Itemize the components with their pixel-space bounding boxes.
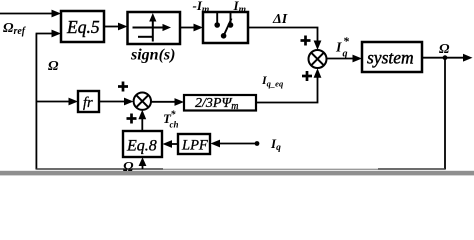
svg-text:Ω: Ω <box>439 42 450 57</box>
wire: switch output with corner down to summing junction 1 <box>248 28 321 51</box>
svg-text:ch: ch <box>170 120 179 130</box>
junction dot on output <box>443 55 448 60</box>
block limiter switch <box>203 12 248 43</box>
block Eq.5 <box>61 11 104 42</box>
svg-text:LPF: LPF <box>181 138 208 154</box>
label + (bottom input of summing junction 2) <box>127 114 137 124</box>
wire: lower input into Eq.5 <box>36 30 61 38</box>
wire: omega_ref input line <box>0 10 61 18</box>
label Iq (LPF input) <box>270 136 281 153</box>
svg-text:I: I <box>335 41 342 56</box>
svg-text:Iq_eq: Iq_eq <box>261 73 284 89</box>
wire: 2/3PPsi_m output corner up to summing junction 1 <box>256 68 321 102</box>
svg-text:fr: fr <box>83 95 93 111</box>
label Omega (Eq.8 bottom input) <box>123 160 134 175</box>
wire: fr to summing junction 2 <box>99 98 134 106</box>
wire: LPF to Eq.8 <box>163 140 179 148</box>
wire: branch to fr <box>36 98 78 106</box>
label Omega (feedback into Eq.5 branch) <box>48 59 59 74</box>
label + (bottom input of summing junction 1) <box>302 71 312 81</box>
block Eq.8 <box>123 131 162 157</box>
wire: summing junction 2 to 2/3PPsi_m <box>151 98 184 106</box>
wire: Omega input up into Eq.8 bottom <box>139 157 147 169</box>
label Iq_eq <box>261 73 284 89</box>
junction dot Iq <box>255 141 260 146</box>
svg-text:Ω: Ω <box>123 160 134 175</box>
summing junction 2 (multiplier circle) <box>134 93 151 110</box>
label Iq* <box>335 34 350 60</box>
label Tch* <box>163 110 179 130</box>
wire: system output <box>422 54 473 62</box>
wire: feedback vertical left (Omega) <box>35 34 37 170</box>
svg-text:q: q <box>343 49 348 60</box>
label + (left input of summing junction 2) <box>118 82 128 92</box>
block system <box>362 42 422 72</box>
block LPF <box>178 134 210 154</box>
wire: feedback bottom <box>36 168 445 170</box>
wire: feedback vertical right <box>444 58 446 170</box>
wire: Iq input to LPF <box>211 140 258 148</box>
wire: summing junction 1 to system <box>327 55 363 63</box>
svg-text:system: system <box>367 48 414 68</box>
scan border gray band bottom <box>0 171 474 176</box>
svg-text:Iq: Iq <box>270 136 281 153</box>
svg-text:Ωref: Ωref <box>3 21 27 37</box>
svg-text:sign(s): sign(s) <box>130 47 175 64</box>
svg-text:ΔI: ΔI <box>272 12 288 27</box>
label + (top input of summing junction 1) <box>301 36 311 46</box>
label sign(s) <box>130 47 175 64</box>
wire: Eq.8 output up to summing junction 2 <box>138 110 146 131</box>
block 2/3PPsi_m <box>184 95 256 112</box>
label Im <box>233 0 246 15</box>
svg-text:Ω: Ω <box>48 59 59 74</box>
svg-text:Eq.5: Eq.5 <box>66 17 100 37</box>
label -Im <box>193 0 210 15</box>
block fr <box>78 91 99 112</box>
svg-text:Eq.8: Eq.8 <box>126 138 157 155</box>
wire: Eq.5 to sign block <box>104 23 128 31</box>
label Omega (output) <box>439 42 450 57</box>
label Omega_ref <box>3 21 27 37</box>
summing junction 1 (multiplier circle) <box>309 50 327 68</box>
label Delta I <box>272 12 288 27</box>
block sign(s) relay <box>128 12 181 44</box>
wire: sign block to limiter switch <box>180 24 203 32</box>
svg-text:*: * <box>343 34 350 48</box>
